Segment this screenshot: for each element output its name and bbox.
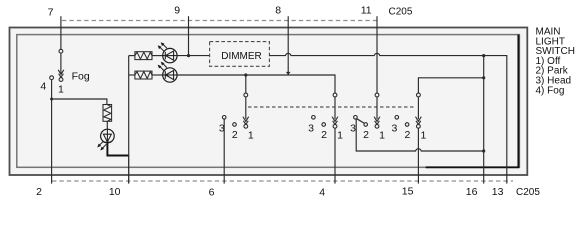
switch group 3 contact 1 terminal bbox=[375, 124, 379, 128]
switch group 2 contact 3 terminal bbox=[312, 116, 316, 120]
switch group 1 pole terminal bbox=[244, 93, 248, 97]
connector C205 bottom dashed line bbox=[52, 180, 513, 182]
wire pin 11 drop to group 3 pole bbox=[376, 16, 378, 93]
svg-text:4) Fog: 4) Fog bbox=[536, 85, 565, 96]
switch group 3 wiper chevrons bbox=[374, 117, 380, 125]
wire (dark segment along inner border bottom-right) bbox=[426, 35, 519, 168]
switch group 4 contact 2 terminal bbox=[405, 123, 409, 127]
wire group 2 contact 1 to pin 4 bbox=[334, 128, 336, 183]
wire dimmer net to group 4 pole bbox=[418, 78, 483, 93]
switch group 3 contact 2 terminal bbox=[364, 123, 368, 127]
resistor (head indicator, row 2) bbox=[135, 71, 152, 79]
wire pin 8 drop bbox=[287, 16, 289, 73]
svg-text:1: 1 bbox=[379, 130, 385, 142]
switch group 3 contact 3 terminal bbox=[354, 116, 358, 120]
wire bus tee down to group 1 pole bbox=[245, 75, 247, 93]
switch group 1 pole wire bbox=[245, 97, 247, 119]
switch group 1 contact 3 terminal bbox=[222, 116, 226, 120]
svg-text:3: 3 bbox=[350, 122, 356, 134]
svg-text:3: 3 bbox=[308, 122, 314, 134]
switch group 2 wiper chevrons bbox=[332, 117, 338, 125]
junction dot dimmer net top bbox=[482, 54, 485, 57]
wire pin 7 to fog switch pole bbox=[60, 16, 62, 49]
junction dot bus tee group 1 bbox=[244, 73, 247, 76]
switch linkage dashed line bbox=[248, 106, 414, 108]
DIMMER dashed box bbox=[210, 42, 270, 67]
fog switch contact 1 terminal bbox=[59, 78, 63, 82]
svg-text:3: 3 bbox=[391, 122, 397, 134]
wire rail to resistor row 1 bbox=[129, 55, 135, 57]
fog switch pole terminal bbox=[59, 49, 63, 53]
svg-text:2: 2 bbox=[321, 129, 327, 141]
svg-text:1: 1 bbox=[420, 130, 426, 142]
wire DIMMER output with crossover humps bbox=[269, 53, 506, 183]
switch group 4 contact 1 terminal bbox=[417, 124, 421, 128]
connector C205 top dashed line bbox=[62, 20, 378, 22]
wire dimmer net vertical drop bbox=[483, 56, 485, 151]
fog switch contact 4 terminal bbox=[50, 76, 54, 80]
junction dot dimmer net mid bbox=[482, 76, 485, 79]
switch group 4 pole wire bbox=[417, 97, 419, 119]
inner case border bbox=[17, 35, 520, 168]
wire fog tee to fog resistor bbox=[52, 99, 107, 105]
wire LED 1 to pin 9 junction to DIMMER bbox=[177, 55, 210, 57]
wire pin 16 drop bbox=[483, 151, 485, 184]
outer case border bbox=[10, 28, 528, 176]
jumper group 3 contact 3 to contact 2 bbox=[357, 119, 364, 123]
svg-text:2: 2 bbox=[363, 129, 369, 141]
wire fog resistor to fog LED bbox=[106, 121, 108, 129]
wire group 1 contact 3 to pin 6 bbox=[223, 119, 225, 184]
switch group 1 contact 2 terminal bbox=[233, 123, 237, 127]
switch group 2 pole wire bbox=[334, 97, 336, 119]
fog switch wiper chevrons bbox=[58, 70, 64, 78]
switch group 4 wiper chevrons bbox=[416, 117, 422, 125]
wire pin 9 drop bbox=[188, 16, 190, 55]
wire fog pole to wiper bbox=[60, 53, 62, 73]
wire lamp ground rail bbox=[128, 56, 130, 156]
switch group 4 contact 3 terminal bbox=[395, 116, 399, 120]
switch group 4 pole terminal bbox=[417, 93, 421, 97]
junction dot dimmer net bottom corner bbox=[482, 149, 485, 152]
svg-text:2: 2 bbox=[404, 129, 410, 141]
svg-text:2: 2 bbox=[232, 129, 238, 141]
wire fog LED to pin 10 (thick jog) bbox=[107, 143, 128, 156]
junction arrow pin 8 on bus bbox=[286, 72, 291, 75]
LED indicator row 2 bbox=[158, 62, 177, 83]
wire LED 2 feed bus to switch poles 1 and 2 bbox=[177, 75, 335, 93]
switch group 2 contact 2 terminal bbox=[322, 123, 326, 127]
wire resistor 2 to LED 2 bbox=[152, 74, 163, 76]
switch group 1 wiper chevrons bbox=[243, 117, 249, 125]
switch group 2 pole terminal bbox=[333, 93, 337, 97]
wire group 4 contact 1 to pin 15 bbox=[417, 128, 419, 183]
svg-text:1: 1 bbox=[248, 130, 254, 142]
LED indicator row 1 bbox=[158, 42, 177, 63]
wire pin 10 drop bbox=[128, 155, 130, 184]
junction dot pin 9 / row 1 bbox=[187, 54, 190, 57]
switch group 2 contact 1 terminal bbox=[333, 124, 337, 128]
LED fog indicator bbox=[97, 129, 114, 150]
switch group 1 contact 1 terminal bbox=[244, 124, 248, 128]
switch group 3 pole terminal bbox=[375, 93, 379, 97]
svg-text:1: 1 bbox=[337, 130, 343, 142]
wire dimmer net to group 3 contact 3 with hump over pin 15 bbox=[356, 119, 484, 151]
switch group 3 pole wire bbox=[376, 97, 378, 119]
junction dot fog feed tee bbox=[50, 98, 53, 101]
wire rail to resistor row 2 bbox=[129, 74, 135, 76]
wire fog contact 4 down to pin 2 bbox=[51, 80, 53, 184]
wire resistor 1 to LED 1 bbox=[152, 55, 163, 57]
resistor (park indicator, row 1) bbox=[135, 52, 152, 60]
switch body fill bbox=[10, 28, 528, 176]
resistor (fog indicator, vertical) bbox=[103, 105, 112, 122]
